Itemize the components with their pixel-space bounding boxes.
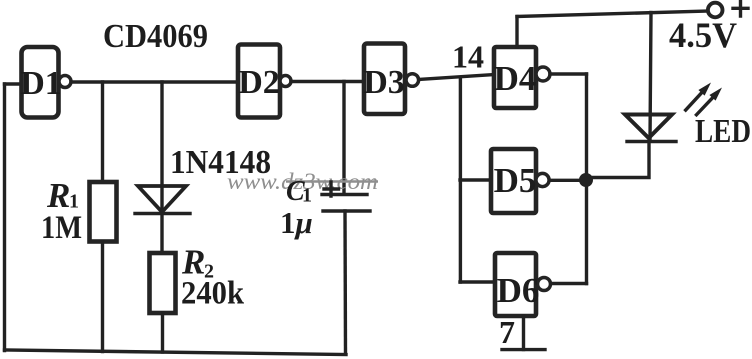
wire: R1 bottom lead bbox=[101, 242, 104, 352]
wire: node A from D1 output to D2 input bbox=[71, 80, 238, 83]
ground bar (pin 7 common) bbox=[502, 348, 545, 351]
wire: D2 output to D3 input bbox=[291, 80, 364, 83]
junction dot bbox=[579, 173, 593, 187]
svg-text:D1: D1 bbox=[20, 65, 62, 102]
label diode type 1N4148 bbox=[170, 144, 271, 181]
wire: junction to LED cathode (right then up) bbox=[586, 142, 649, 178]
svg-text:D4: D4 bbox=[494, 59, 537, 98]
svg-text:D5: D5 bbox=[494, 161, 537, 200]
wire: D6 ground stub bbox=[522, 316, 525, 350]
inverter D6 bbox=[495, 253, 551, 316]
wire: top +V rail bbox=[517, 11, 709, 17]
svg-text:D2: D2 bbox=[238, 64, 280, 101]
wire: D1 input from left feedback rail bbox=[5, 82, 22, 85]
label R1 designator bbox=[46, 176, 79, 215]
wire: C1 bottom lead to bottom rail bbox=[343, 211, 347, 354]
svg-text:D3: D3 bbox=[363, 64, 405, 101]
wire: D5 input bbox=[460, 178, 491, 181]
inverter D5 bbox=[491, 149, 549, 213]
label C1 value 1u bbox=[280, 205, 313, 240]
inverter D2 bbox=[238, 45, 291, 118]
wire: D5 output to junction bbox=[550, 179, 581, 182]
resistor R1 bbox=[90, 182, 117, 242]
watermark www.dz3w.com bbox=[227, 169, 378, 194]
label R1 value 1M bbox=[41, 210, 82, 246]
wire: R2 bottom lead bbox=[161, 313, 164, 352]
wire: right vertical bus D4-D5-D6 outputs bbox=[585, 74, 588, 284]
supply voltage label 4.5V bbox=[669, 15, 737, 55]
wire: D4 power stub to +V rail bbox=[515, 17, 518, 48]
C1 polarity plus sign bbox=[324, 182, 339, 196]
svg-text:1: 1 bbox=[302, 185, 312, 207]
svg-text:CD4069: CD4069 bbox=[103, 18, 208, 55]
LED name label bbox=[695, 113, 751, 150]
wire: bottom feedback rail bbox=[5, 350, 347, 355]
IC type label CD4069 bbox=[103, 18, 208, 55]
plus sign label bbox=[733, 1, 748, 16]
svg-text:LED: LED bbox=[695, 113, 751, 150]
wire: D3 output to D4 input bbox=[419, 75, 494, 80]
pin number 7 label bbox=[499, 314, 515, 350]
inverter D3 bbox=[363, 44, 418, 115]
inverter D1 bbox=[20, 47, 71, 118]
svg-text:240k: 240k bbox=[181, 276, 245, 312]
LED emission arrow 2 bbox=[695, 88, 722, 117]
capacitor C1 bottom plate bbox=[323, 209, 370, 212]
wire: D4 output to right vertical bus bbox=[550, 72, 587, 75]
svg-text:1μ: 1μ bbox=[280, 205, 313, 240]
wire: diode cathode to R2 bbox=[160, 214, 163, 254]
LED D7 symbol bbox=[625, 115, 676, 142]
label C1 designator bbox=[286, 176, 312, 207]
capacitor C1 top plate bbox=[322, 193, 367, 196]
svg-text:14: 14 bbox=[452, 39, 484, 75]
label R2 designator bbox=[181, 243, 214, 283]
LED emission arrow 1 bbox=[685, 83, 712, 112]
wire: branch vertical to D5 and D6 inputs bbox=[459, 78, 462, 283]
resistor R2 bbox=[150, 253, 176, 313]
wire: R1 top lead from node A bbox=[101, 82, 104, 182]
svg-text:7: 7 bbox=[499, 314, 515, 350]
pin number 14 label bbox=[452, 39, 484, 75]
svg-text:D6: D6 bbox=[497, 271, 540, 310]
wire: diode VD anode lead from node A bbox=[160, 82, 163, 211]
svg-text:1M: 1M bbox=[41, 210, 82, 246]
wire: LED anode lead from +V rail bbox=[650, 13, 651, 142]
wire: D6 output to right vertical bus bbox=[551, 282, 587, 285]
wire: C1 top lead branch bbox=[342, 82, 345, 195]
wire: left feedback vertical rail bbox=[3, 84, 6, 351]
svg-text:4.5V: 4.5V bbox=[669, 15, 737, 55]
battery terminal circle bbox=[708, 3, 723, 18]
label R2 value 240k bbox=[181, 276, 245, 312]
wire: D6 input bbox=[460, 280, 495, 283]
inverter D4 bbox=[494, 47, 550, 108]
diode VD 1N4148 bbox=[135, 186, 190, 214]
